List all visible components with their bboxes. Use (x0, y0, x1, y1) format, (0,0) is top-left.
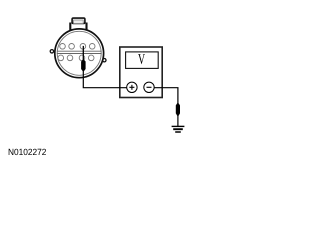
ground symbol (172, 125, 185, 127)
test probe body (right, on ground lead) (176, 103, 180, 116)
test probe body (left) (81, 60, 86, 72)
connector mounting ear right (103, 59, 106, 62)
pin top row 2 (69, 44, 75, 50)
connector top tab lid (72, 18, 85, 23)
figure reference label N0102272 (9, 149, 46, 155)
pin bottom row 3 (79, 55, 85, 61)
pin top row 3 (probed) (80, 44, 86, 50)
pin top row 1 (60, 44, 66, 50)
voltmeter + terminal (127, 82, 137, 92)
connector body inner circle (57, 31, 101, 75)
pin bottom row 4 (88, 55, 94, 61)
pin row divider double line (57, 50, 102, 52)
voltmeter display screen (126, 52, 159, 69)
connector top tab right flare (85, 23, 87, 31)
pin bottom row 2 (67, 55, 73, 61)
pin bottom row 1 (58, 55, 64, 61)
connector body outer circle (55, 29, 104, 78)
voltmeter box (120, 47, 162, 98)
pin top row 4 (89, 44, 95, 50)
wire from voltmeter - terminal right then down to ground (154, 88, 178, 127)
connector top tab left flare (69, 23, 71, 31)
voltmeter V label (138, 54, 145, 64)
wire from connector probe down and right to voltmeter + terminal (83, 60, 127, 88)
connector mounting ear left (50, 50, 53, 53)
connector top tab inner detail (74, 20, 84, 24)
voltmeter - terminal (144, 82, 154, 92)
test probe lead in connector pin (82, 46, 84, 61)
